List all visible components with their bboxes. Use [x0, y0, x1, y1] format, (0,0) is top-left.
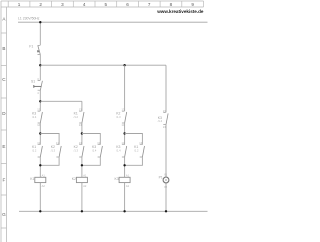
wire: node L1 to branch1 junction: [39, 21, 41, 23]
svg-text:X1: X1: [164, 172, 168, 176]
node branch3 parallel rejoin: [123, 164, 125, 166]
wire: branch 4 vertical segments: [165, 65, 167, 211]
node branch3 parallel split: [123, 132, 125, 134]
node branch1 on N rail: [39, 210, 41, 212]
frame: top ruler inner line: [1, 6, 204, 8]
svg-text:A2: A2: [42, 184, 46, 188]
node branch3 tap on feed line: [123, 64, 125, 66]
wire: feed line to branches 3 and 4: [40, 64, 166, 66]
contact K2 on branch 3: [116, 108, 126, 128]
wire: branch1 parallel bottom link: [40, 157, 59, 165]
breaker F1: [29, 45, 40, 55]
wire: branch1 parallel top link: [40, 134, 59, 145]
frame: top ruler outer line: [1, 0, 204, 2]
frame: row letters A-G: [2, 17, 6, 218]
frame: top ruler ticks: [8, 1, 203, 7]
svg-text:/1.2: /1.2: [134, 148, 139, 152]
node branch2 on N rail: [81, 210, 83, 212]
svg-text:A2: A2: [126, 184, 130, 188]
coil K2: [72, 173, 88, 188]
contact K3 on branch 1: [32, 108, 42, 128]
frame: left ruler outer line: [0, 1, 2, 242]
svg-text:/1.3: /1.3: [116, 115, 121, 119]
svg-text:/1.2: /1.2: [32, 148, 37, 152]
svg-text:L1 230V/50Hz: L1 230V/50Hz: [18, 16, 40, 20]
contact K1 on branch 2: [74, 108, 84, 128]
node branch2 parallel rejoin: [81, 164, 83, 166]
wire: branch3 parallel top link: [125, 134, 143, 145]
lamp P1: [159, 172, 169, 189]
svg-text:4: 4: [83, 2, 86, 7]
wire: feed line to branch 2: [40, 100, 82, 102]
svg-text:1: 1: [18, 2, 21, 7]
svg-text:9: 9: [191, 2, 194, 7]
svg-text:A1: A1: [126, 173, 130, 177]
wire: branch3 parallel bottom link: [125, 157, 143, 165]
contact K2 self-hold on branch 2: [74, 141, 84, 157]
wire: branch 3 vertical segments: [124, 65, 126, 211]
node branch2 parallel split: [81, 132, 83, 134]
svg-text:/1.4: /1.4: [92, 148, 97, 152]
contact K3 on branch 4: [158, 109, 168, 129]
svg-text:/1.3: /1.3: [51, 148, 56, 152]
wire: branch2 parallel bottom link: [82, 157, 100, 165]
node after F1 (feeds branches 3 and 4): [39, 64, 41, 66]
svg-text:A2: A2: [83, 184, 87, 188]
node branch4 on N rail: [165, 210, 167, 212]
svg-text:/1.4: /1.4: [116, 148, 121, 152]
svg-text:7: 7: [148, 2, 151, 7]
svg-text:B: B: [2, 46, 5, 51]
contact K1 parallel on branch 3: [134, 141, 144, 157]
svg-text:5: 5: [105, 2, 108, 7]
svg-text:/1.3: /1.3: [74, 148, 79, 152]
wire: L1 rail: [18, 21, 208, 23]
svg-text:E: E: [2, 144, 5, 149]
coil K3: [115, 173, 131, 188]
svg-text:3: 3: [61, 2, 64, 7]
svg-text:8: 8: [170, 2, 173, 7]
svg-text:6: 6: [126, 2, 129, 7]
wire: branch 1 vertical segments: [39, 22, 41, 211]
wire: branch2 parallel top link: [82, 134, 100, 145]
svg-text:F1: F1: [29, 45, 33, 49]
contact K1 self-hold on branch 1: [32, 141, 42, 157]
frame: column numbers 1-9: [18, 2, 195, 7]
contact K3 self-hold on branch 3: [116, 141, 126, 157]
svg-text:P1: P1: [159, 175, 163, 179]
svg-text:G: G: [2, 212, 6, 217]
node after S1 (feeds branch 2): [39, 100, 41, 102]
frame: left ruler ticks: [1, 33, 7, 228]
svg-text:F: F: [2, 178, 5, 183]
node branch3 on N rail: [123, 210, 125, 212]
wire: N rail: [19, 210, 208, 212]
svg-text:/1.2: /1.2: [74, 115, 79, 119]
svg-text:A1: A1: [83, 173, 87, 177]
svg-text:K2: K2: [72, 177, 76, 181]
svg-text:K1: K1: [30, 177, 34, 181]
contact K2 parallel on branch 1: [51, 141, 61, 157]
coil K1: [30, 173, 46, 188]
svg-text:/1.4: /1.4: [158, 119, 163, 123]
pushbutton S1: [31, 77, 42, 95]
node branch1 parallel rejoin: [39, 164, 41, 166]
svg-text:K3: K3: [115, 177, 119, 181]
wire: branch 2 vertical segments: [81, 101, 83, 211]
frame: left ruler inner line: [6, 7, 8, 242]
svg-text:A1: A1: [42, 173, 46, 177]
svg-text:X2: X2: [164, 185, 168, 189]
svg-text:www.kreativekiste.de: www.kreativekiste.de: [156, 9, 204, 14]
svg-text:2: 2: [39, 2, 42, 7]
contact K3 parallel on branch 2: [92, 141, 102, 157]
svg-text:/1.4: /1.4: [32, 115, 37, 119]
svg-text:S1: S1: [31, 80, 35, 84]
node branch1 parallel split: [39, 132, 41, 134]
